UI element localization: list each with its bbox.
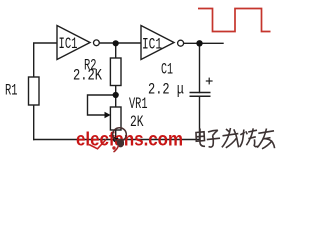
output waveform (red square wave) <box>198 9 271 32</box>
svg-text:2.2K: 2.2K <box>73 67 102 85</box>
watermark logo dark blob <box>117 139 124 148</box>
wire VR1 wiper loop <box>88 95 116 115</box>
polarity plus mark for C1 <box>206 78 213 85</box>
wire C1 bottom lead <box>199 96 201 139</box>
node B : junction R2 bottom / VR1 wiper <box>113 92 119 98</box>
watermark logo checkmark <box>89 140 106 149</box>
watermark chinese char 2 (zi) <box>207 130 220 147</box>
inverter gate IC1b <box>141 26 184 60</box>
watermark chinese char 3 (fa) <box>222 128 239 148</box>
wire C1 branch vertical <box>199 43 201 92</box>
watermark chinese char 5 (you) <box>257 129 274 149</box>
watermark chinese char 4 (shao) <box>240 128 258 146</box>
wire inverter2 output stub <box>184 42 223 44</box>
watermark logo leaf ring <box>113 128 127 142</box>
watermark chinese char 1 (dian) <box>196 129 205 147</box>
capacitor C1 <box>190 93 211 97</box>
wire R2 branch vertical <box>115 43 117 107</box>
resistor R2 <box>110 58 121 86</box>
svg-text:elecfans.com: elecfans.com <box>76 130 183 151</box>
svg-text:VR1: VR1 <box>129 95 148 113</box>
svg-text:2K: 2K <box>130 113 144 131</box>
svg-text:IC1: IC1 <box>142 36 162 54</box>
svg-text:2.2 μ: 2.2 μ <box>148 81 184 99</box>
svg-text:R1: R1 <box>5 82 18 100</box>
svg-text:C1: C1 <box>161 61 173 79</box>
svg-text:IC1: IC1 <box>59 35 78 53</box>
node A : junction inverter1 output / R2 <box>113 40 119 46</box>
wire VR1 bottom to bottom rail <box>115 130 117 140</box>
wire inverter1 output to inverter2 input <box>100 42 141 44</box>
inverter gate IC1a <box>57 26 99 60</box>
node C : junction VR1 bottom / bottom rail <box>113 137 119 143</box>
resistor R1 <box>29 77 40 105</box>
node D : junction inverter2 output / C1 <box>196 40 202 46</box>
potentiometer VR1 <box>105 95 148 131</box>
wire left rail <box>34 43 57 140</box>
wire bottom rail <box>34 139 200 141</box>
